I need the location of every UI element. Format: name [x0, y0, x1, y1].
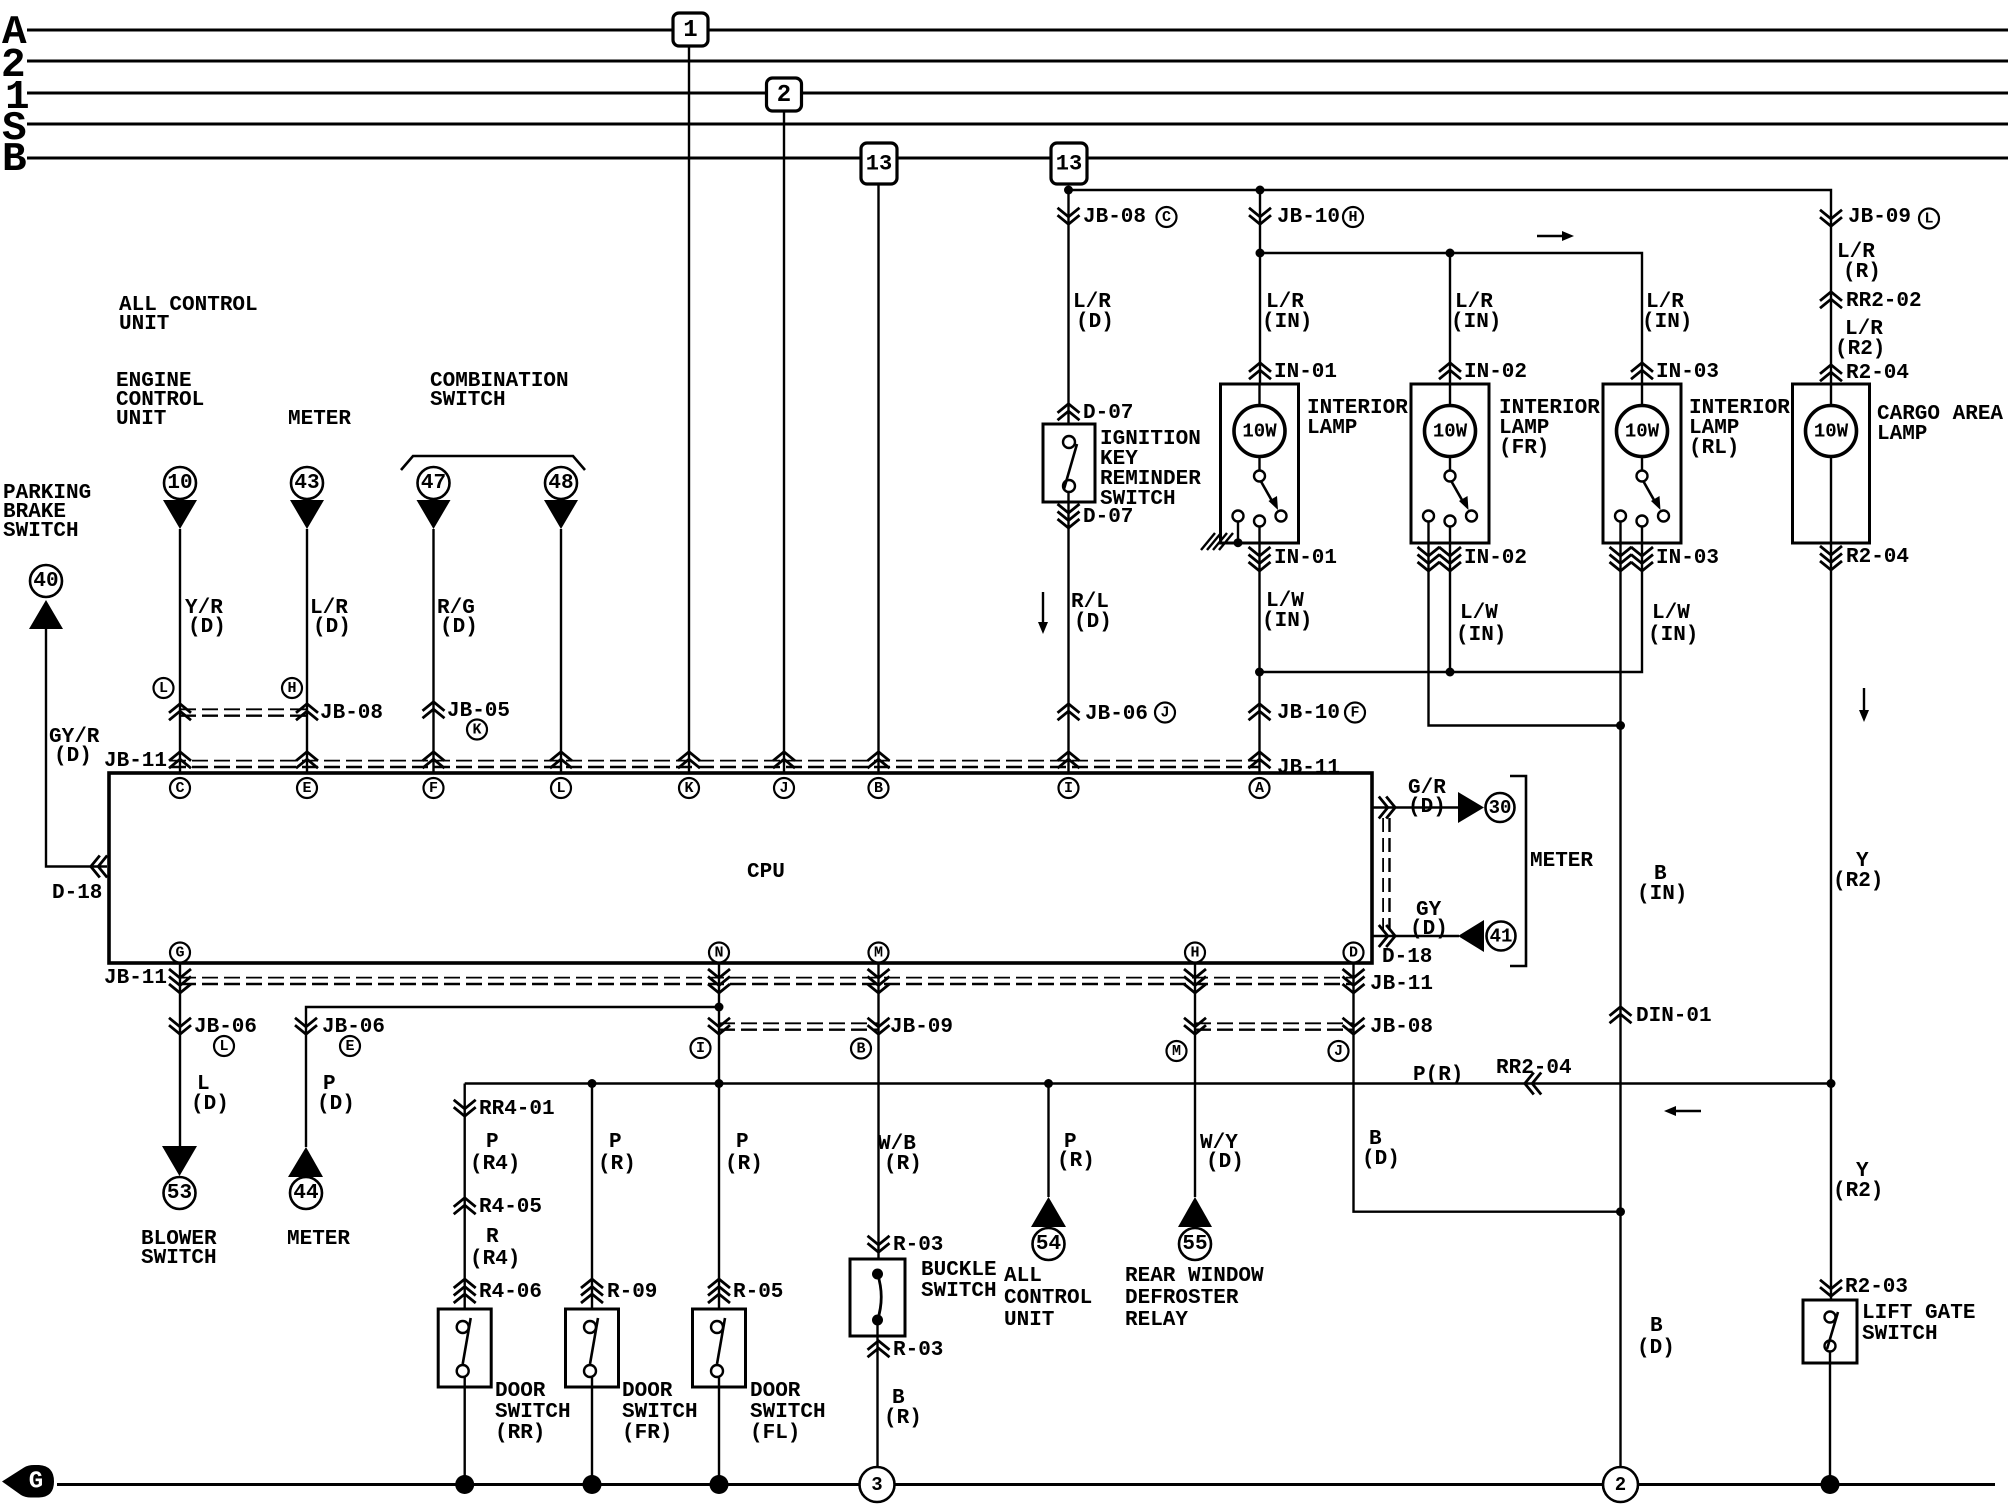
svg-text:10W: 10W [1242, 421, 1277, 443]
JB-06 chevron on wire I [1058, 704, 1080, 713]
arrow down from 48 [544, 500, 578, 529]
svg-text:R4-05: R4-05 [479, 1196, 542, 1219]
svg-text:DIN-01: DIN-01 [1636, 1005, 1712, 1028]
JB-05 chevron on wire F [423, 702, 445, 711]
R-09 chevron [581, 1279, 603, 1288]
svg-text:(D): (D) [1206, 1151, 1244, 1174]
svg-text:JB-10: JB-10 [1277, 206, 1340, 229]
wire buckle to circled 3 [876, 1320, 878, 1467]
arrow down from 10 [163, 500, 197, 529]
svg-text:IN-01: IN-01 [1274, 361, 1337, 384]
ignition switch contact upper [1063, 436, 1075, 448]
svg-text:SWITCH: SWITCH [1862, 1323, 1938, 1346]
svg-text:JB-09: JB-09 [890, 1016, 953, 1039]
JB-08 chevron on wire D [1343, 1025, 1365, 1034]
buckle switch contact lower [872, 1315, 883, 1326]
svg-text:(R2): (R2) [1833, 870, 1883, 893]
connector circle 44 (meter) [290, 1177, 322, 1209]
svg-text:55: 55 [1182, 1233, 1207, 1256]
node lamp1 wire y253 [1256, 249, 1265, 258]
svg-text:(IN): (IN) [1456, 624, 1506, 647]
svg-text:METER: METER [287, 1228, 350, 1251]
ground node FL [710, 1475, 729, 1494]
node on wire I at feed line [1064, 186, 1073, 195]
JB-11 chevron on wire F [423, 752, 445, 761]
lift gate switch contact lower [1825, 1341, 1836, 1352]
ground connector circle 2 [1603, 1467, 1638, 1502]
node H top [1343, 207, 1363, 227]
JB-11 chevron below pin M [868, 984, 890, 993]
svg-text:(IN): (IN) [1262, 610, 1312, 633]
svg-text:P(R): P(R) [1413, 1064, 1463, 1087]
ground tag G [2, 1465, 54, 1498]
svg-text:UNIT: UNIT [1004, 1309, 1054, 1332]
JB-08 dashed pair H-D [1195, 1022, 1354, 1024]
R2-03 chevron above lift gate switch [1820, 1287, 1842, 1296]
svg-text:J: J [1160, 705, 1169, 722]
JB-11 chevron on wire K [678, 752, 700, 761]
connector tag 1 on bus A [673, 13, 708, 46]
RR2-02 chevron [1820, 292, 1842, 301]
svg-text:BUCKLE: BUCKLE [921, 1259, 997, 1282]
svg-text:I: I [696, 1040, 705, 1057]
arrow down from 47 [417, 500, 451, 529]
interior lamp RL contacts [1641, 457, 1643, 471]
svg-text:E: E [345, 1038, 354, 1055]
node F on wire A [1345, 703, 1365, 723]
svg-text:(R): (R) [725, 1153, 763, 1176]
svg-text:D: D [1349, 945, 1358, 962]
junction JB-11 dashed bus above CPU [170, 760, 1260, 762]
wire F from 47 to CPU pin F [432, 529, 434, 773]
svg-text:D-18: D-18 [52, 882, 102, 905]
svg-text:13: 13 [866, 152, 892, 177]
svg-text:CPU: CPU [747, 861, 785, 884]
wire lampRL left contact down (B IN) [1619, 522, 1621, 1468]
CPU bottom pin H [1185, 943, 1205, 963]
ignition key reminder switch box [1043, 424, 1095, 502]
svg-text:DEFROSTER: DEFROSTER [1125, 1287, 1239, 1310]
ground connector circle 3 [860, 1467, 895, 1502]
wire I upper segment [1067, 190, 1069, 436]
svg-text:R-09: R-09 [607, 1281, 657, 1304]
wire D from CPU, B(D) to junction [1354, 963, 1621, 1212]
CPU top pin A [1250, 778, 1270, 798]
JB-11 chevron on wire E [296, 752, 318, 761]
svg-text:JB-06: JB-06 [1085, 703, 1148, 726]
svg-text:1: 1 [683, 17, 697, 44]
arrow down from 43 [290, 500, 324, 529]
JB-09 chevron top right [1820, 217, 1842, 226]
interior lamp FR box [1411, 384, 1489, 543]
svg-text:(D): (D) [54, 745, 92, 768]
R4-05 chevron [454, 1198, 476, 1207]
svg-text:RR2-02: RR2-02 [1846, 290, 1922, 313]
node lampFR wire y253 [1446, 249, 1455, 258]
wire lampFR left contact down to y725 [1429, 522, 1621, 726]
connector circle 53 (blower switch) [164, 1177, 196, 1209]
svg-text:SWITCH: SWITCH [3, 520, 79, 543]
flow arrow down right side [1863, 688, 1865, 712]
connector D-18 dashed pair vertical [1382, 818, 1384, 930]
R4-06 chevron [454, 1279, 476, 1288]
svg-text:(RR): (RR) [495, 1422, 545, 1445]
svg-text:J: J [779, 780, 788, 797]
wire K from tag 1 to CPU pin K [688, 46, 690, 773]
svg-text:JB-10: JB-10 [1277, 702, 1340, 725]
buckle switch contact upper [872, 1269, 883, 1280]
interior lamp box [1221, 384, 1299, 543]
JB-11 chevron below pin N [708, 984, 730, 993]
svg-text:13: 13 [1056, 152, 1082, 177]
node K below JB-05 [467, 720, 487, 740]
wire J from tag 2 to CPU pin J [783, 111, 785, 773]
svg-text:A: A [1255, 780, 1264, 797]
svg-text:SWITCH: SWITCH [495, 1401, 571, 1424]
CPU top pin B [869, 778, 889, 798]
JB-11 chevron on wire L [550, 752, 572, 761]
wire 54 from P(R) line [1047, 1084, 1049, 1198]
node FL wire on P(R) line [715, 1079, 724, 1088]
svg-text:(FR): (FR) [1499, 437, 1549, 460]
node I on wire N [691, 1038, 711, 1058]
IN-01 chevron below lamp [1249, 562, 1271, 571]
CPU top pin F [424, 778, 444, 798]
wire B from tag 13 to CPU pin B [877, 184, 879, 773]
CPU bottom pin D [1344, 943, 1364, 963]
ground node lift gate [1821, 1475, 1840, 1494]
svg-text:DOOR: DOOR [750, 1380, 801, 1403]
cargo lamp wires through [1830, 384, 1832, 406]
svg-text:10W: 10W [1625, 421, 1660, 443]
wire lampFR mid contact down [1449, 527, 1451, 673]
IN-03 chevron above lampRL [1631, 363, 1653, 372]
JB-11 chevron below pin H [1184, 984, 1206, 993]
svg-text:(RL): (RL) [1689, 437, 1739, 460]
JB-10 chevron on lamp1 wire [1249, 215, 1271, 224]
JB-09 chevron on wire M [868, 1025, 890, 1034]
lift gate switch box [1803, 1300, 1857, 1363]
svg-text:UNIT: UNIT [116, 408, 166, 431]
svg-text:(D): (D) [317, 1093, 355, 1116]
svg-text:RELAY: RELAY [1125, 1309, 1188, 1332]
svg-text:47: 47 [421, 472, 446, 495]
svg-text:F: F [1350, 705, 1359, 722]
IN-02 chevron above lampFR [1439, 363, 1461, 372]
wire FL to ground [718, 1377, 720, 1485]
junction JB-08 dashed pair C-E [180, 708, 307, 710]
svg-text:L: L [219, 1038, 228, 1055]
JB-08 chevron on wire H [1184, 1025, 1206, 1034]
ground node FR [583, 1475, 602, 1494]
svg-text:30: 30 [1489, 797, 1512, 819]
JB-11 chevron on wire B [868, 752, 890, 761]
svg-text:DOOR: DOOR [495, 1380, 546, 1403]
bus line 2 [27, 60, 2008, 63]
node C top [1157, 207, 1177, 227]
flow arrow down near R/L [1042, 592, 1044, 624]
JB-10 chevron on wire A [1249, 704, 1271, 713]
svg-text:(R): (R) [598, 1153, 636, 1176]
CPU top pin E [297, 778, 317, 798]
node lamp feed at x1260 [1256, 186, 1265, 195]
buckle switch box [850, 1259, 905, 1336]
wire RR from P(R) line to door switch RR [464, 1084, 466, 1322]
wire lampRL mid contact to line y672 [1260, 527, 1643, 673]
svg-text:K: K [472, 722, 481, 739]
svg-text:R-03: R-03 [893, 1234, 943, 1257]
svg-text:UNIT: UNIT [119, 313, 169, 336]
door switch RR box [438, 1309, 491, 1387]
svg-text:(D): (D) [313, 616, 351, 639]
svg-text:R-05: R-05 [733, 1281, 783, 1304]
svg-text:SWITCH: SWITCH [141, 1247, 217, 1270]
arrow left from 41 [1458, 920, 1484, 952]
JB-11 chevron on wire A [1249, 752, 1271, 761]
node FR wire on P(R) line [588, 1079, 597, 1088]
wire H from CPU to 55 [1194, 963, 1196, 1197]
svg-text:IN-02: IN-02 [1464, 547, 1527, 570]
node P(R) line meets lift gate wire [1827, 1079, 1836, 1088]
connector circle 55 (defroster relay) [1179, 1228, 1211, 1260]
svg-text:10W: 10W [1814, 421, 1849, 443]
svg-text:E: E [302, 780, 311, 797]
wire lift gate to ground [1829, 1352, 1831, 1485]
svg-text:L: L [1924, 211, 1933, 228]
node 54 wire on P(R) line [1044, 1079, 1053, 1088]
JB-08 chevron on wire C [169, 704, 191, 713]
JB-09 dashed pair N-M [719, 1022, 879, 1024]
svg-text:R2-04: R2-04 [1846, 362, 1909, 385]
svg-text:(IN): (IN) [1648, 624, 1698, 647]
door switch FL box [693, 1309, 746, 1387]
svg-text:53: 53 [167, 1182, 192, 1205]
svg-text:(D): (D) [1362, 1148, 1400, 1171]
JB-11 chevron below pin D [1343, 984, 1365, 993]
arrow up to 40 [29, 600, 63, 629]
svg-text:SWITCH: SWITCH [622, 1401, 698, 1424]
connector tag 13 right on bus B [1051, 143, 1087, 184]
arrow up to 54 [1031, 1197, 1066, 1227]
RR4-01 chevron [454, 1107, 476, 1116]
JB-08 chevron on wire E [296, 704, 318, 713]
R2-04 chevron below cargo lamp [1820, 561, 1842, 570]
wire G from CPU to blower arrow [179, 963, 181, 1146]
svg-text:(D): (D) [188, 616, 226, 639]
svg-text:F: F [429, 780, 438, 797]
cargo area lamp box [1793, 384, 1870, 543]
svg-text:H: H [287, 680, 296, 697]
svg-text:ALL: ALL [1004, 1265, 1042, 1288]
wire lamp1 top [1259, 190, 1261, 384]
svg-text:G: G [175, 945, 184, 962]
ground dot interior lamp [1234, 538, 1243, 547]
JB-09 chevron on wire N [708, 1025, 730, 1034]
node L on wire C [154, 678, 174, 698]
junction JB-11 dashed bus below CPU [180, 977, 1354, 979]
svg-text:P: P [609, 1131, 622, 1154]
svg-text:(R2): (R2) [1835, 338, 1885, 361]
svg-text:R4-06: R4-06 [479, 1281, 542, 1304]
svg-text:P: P [736, 1131, 749, 1154]
D-18 chevron on G/R stub [1386, 797, 1395, 819]
wire FR from P(R) line [591, 1084, 593, 1322]
node M on wire H [1167, 1041, 1187, 1061]
lift gate switch blade [1827, 1312, 1838, 1349]
svg-text:2: 2 [777, 82, 791, 109]
svg-text:IN-03: IN-03 [1656, 547, 1719, 570]
svg-text:(D): (D) [191, 1093, 229, 1116]
svg-text:JB-09: JB-09 [1848, 206, 1911, 229]
svg-text:CONTROL: CONTROL [1004, 1287, 1092, 1310]
node lamp1 at y672 [1255, 668, 1264, 677]
R2-04 chevron above cargo lamp [1820, 365, 1842, 374]
svg-text:(IN): (IN) [1637, 883, 1687, 906]
svg-text:(D): (D) [1076, 311, 1114, 334]
svg-text:(R4): (R4) [470, 1248, 520, 1271]
svg-text:(D): (D) [1408, 796, 1446, 819]
door switch FR box [566, 1309, 619, 1387]
connector circle 41 (meter) [1487, 922, 1516, 951]
wire E from 43 to CPU pin E [306, 529, 308, 773]
svg-text:(FL): (FL) [750, 1422, 800, 1445]
svg-text:RR2-04: RR2-04 [1496, 1057, 1572, 1080]
svg-text:D-07: D-07 [1083, 506, 1133, 529]
node lampFR at y672 [1446, 668, 1455, 677]
node J on wire D [1329, 1041, 1349, 1061]
svg-text:I: I [1064, 780, 1073, 797]
wire GY/R from parking brake switch to CPU D-18 [46, 629, 107, 867]
R-03 chevron below buckle [868, 1341, 890, 1350]
connector tag 2 on bus 1 [767, 78, 802, 111]
svg-text:SWITCH: SWITCH [430, 389, 506, 412]
svg-text:LAMP: LAMP [1877, 423, 1927, 446]
svg-text:(R2): (R2) [1833, 1180, 1883, 1203]
CPU top pin C [170, 778, 190, 798]
lift gate switch contact upper [1825, 1312, 1836, 1323]
svg-text:M: M [874, 945, 883, 962]
svg-text:43: 43 [294, 472, 319, 495]
svg-text:(IN): (IN) [1262, 311, 1312, 334]
svg-text:RR4-01: RR4-01 [479, 1098, 555, 1121]
ground node RR [455, 1475, 474, 1494]
wire cargo lamp down to lift gate [1830, 543, 1832, 1300]
wire C from 10 to CPU pin C [179, 529, 181, 773]
node B(D) joins B(IN) [1616, 1207, 1625, 1216]
svg-text:44: 44 [293, 1182, 318, 1205]
DIN-01 chevron [1610, 1007, 1632, 1016]
meter bracket [1510, 776, 1526, 966]
P(R) distribution line [465, 1082, 1831, 1084]
wire N from CPU to door switch FL [718, 963, 720, 1321]
interior lamp ground branch [1237, 522, 1239, 543]
lamp feed line y253 [1260, 253, 1642, 384]
svg-text:JB-11: JB-11 [104, 750, 167, 773]
JB-06 chevron on wire G [169, 1025, 191, 1034]
svg-text:2: 2 [1615, 1474, 1626, 1496]
JB-11 chevron on wire I [1058, 752, 1080, 761]
ignition switch contact lower [1063, 480, 1075, 492]
CPU bottom pin M [869, 943, 889, 963]
bus line A [27, 29, 2008, 32]
svg-text:L: L [556, 780, 565, 797]
ground hatch interior lamp [1219, 533, 1233, 550]
svg-text:D-18: D-18 [1382, 946, 1432, 969]
svg-text:JB-08: JB-08 [1083, 206, 1146, 229]
node J on wire I [1155, 703, 1175, 723]
D-07 chevron below ignition switch [1058, 519, 1080, 528]
svg-text:L/W: L/W [1460, 602, 1498, 625]
connector circle 10 (engine control unit) [164, 467, 196, 499]
svg-text:JB-11: JB-11 [104, 967, 167, 990]
CPU top pin K [679, 778, 699, 798]
node E on meter branch [340, 1036, 360, 1056]
svg-text:SWITCH: SWITCH [921, 1280, 997, 1303]
svg-text:JB-11: JB-11 [1370, 973, 1433, 996]
svg-text:L/W: L/W [1652, 602, 1690, 625]
wire M from CPU to buckle switch [877, 963, 879, 1274]
buckle switch blade [878, 1274, 882, 1320]
arrow right to 30 [1458, 792, 1484, 823]
CPU top pin L [551, 778, 571, 798]
R-03 chevron above buckle [868, 1243, 890, 1252]
arrow up to 44 [288, 1147, 323, 1177]
arrow up to 55 [1178, 1197, 1212, 1227]
wire G/R stub from CPU to 30 [1372, 806, 1458, 808]
svg-text:(D): (D) [1410, 918, 1448, 941]
ignition switch blade [1064, 444, 1077, 489]
interior lamp bulb switch contacts [1258, 457, 1260, 471]
svg-text:B: B [874, 780, 883, 797]
ground line [57, 1483, 860, 1486]
svg-text:IN-02: IN-02 [1464, 361, 1527, 384]
feed line from tag 13 right across lamps [1069, 190, 1832, 384]
node at y725 on B(IN) wire [1616, 721, 1625, 730]
RR2-04 chevron on P(R) line [1525, 1073, 1534, 1095]
svg-text:M: M [1172, 1043, 1181, 1060]
svg-text:(FR): (FR) [622, 1422, 672, 1445]
svg-text:R2-04: R2-04 [1846, 546, 1909, 569]
svg-text:(D): (D) [1637, 1337, 1675, 1360]
svg-text:R2-03: R2-03 [1845, 1276, 1908, 1299]
svg-text:METER: METER [288, 408, 351, 431]
bus line 1 [27, 92, 2008, 95]
svg-text:3: 3 [871, 1474, 882, 1496]
svg-text:40: 40 [33, 570, 58, 593]
interior lamp RL box [1603, 384, 1681, 543]
connector circle 54 (all control unit) [1033, 1228, 1065, 1260]
node L top right [1919, 209, 1939, 229]
svg-text:LIFT GATE: LIFT GATE [1862, 1302, 1975, 1325]
svg-text:JB-08: JB-08 [320, 702, 383, 725]
svg-text:B: B [2, 137, 27, 183]
wire I lower segment to CPU pin I [1067, 492, 1069, 773]
IN-03 chevrons below lamp RL [1610, 562, 1632, 571]
svg-text:10W: 10W [1433, 421, 1468, 443]
connector circle 30 (meter) [1486, 793, 1515, 822]
IN-01 chevron above lamp1 [1249, 363, 1271, 372]
connector circle 43 (meter) [291, 467, 323, 499]
connector circle 48 (combination switch) [545, 467, 577, 499]
svg-text:(R): (R) [1057, 1150, 1095, 1173]
svg-text:C: C [175, 780, 184, 797]
CPU top pin I [1059, 778, 1079, 798]
svg-text:N: N [714, 945, 723, 962]
svg-text:D-07: D-07 [1083, 402, 1133, 425]
svg-text:48: 48 [548, 472, 573, 495]
svg-text:B: B [1650, 1315, 1663, 1338]
svg-text:(R4): (R4) [470, 1153, 520, 1176]
